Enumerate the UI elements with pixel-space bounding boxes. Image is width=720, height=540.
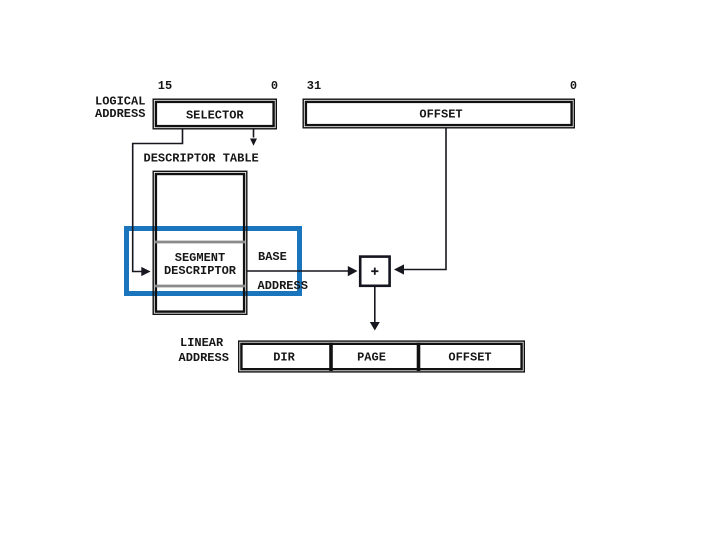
svg-text:LINEAR: LINEAR — [180, 336, 224, 350]
svg-text:ADDRESS: ADDRESS — [258, 279, 308, 293]
svg-text:SELECTOR: SELECTOR — [186, 108, 244, 122]
svg-text:BASE: BASE — [258, 250, 287, 264]
svg-text:OFFSET: OFFSET — [448, 350, 491, 364]
svg-text:ADDRESS: ADDRESS — [179, 351, 229, 365]
svg-text:DESCRIPTOR: DESCRIPTOR — [164, 264, 237, 278]
svg-text:ADDRESS: ADDRESS — [95, 107, 145, 121]
svg-text:DESCRIPTOR TABLE: DESCRIPTOR TABLE — [144, 151, 259, 165]
svg-text:0: 0 — [271, 79, 278, 93]
svg-text:DIR: DIR — [273, 350, 295, 364]
svg-text:PAGE: PAGE — [357, 350, 386, 364]
svg-text:SEGMENT: SEGMENT — [175, 251, 225, 265]
svg-text:15: 15 — [158, 79, 172, 93]
svg-text:OFFSET: OFFSET — [419, 108, 462, 122]
svg-text:0: 0 — [570, 79, 577, 93]
svg-text:31: 31 — [307, 79, 321, 93]
